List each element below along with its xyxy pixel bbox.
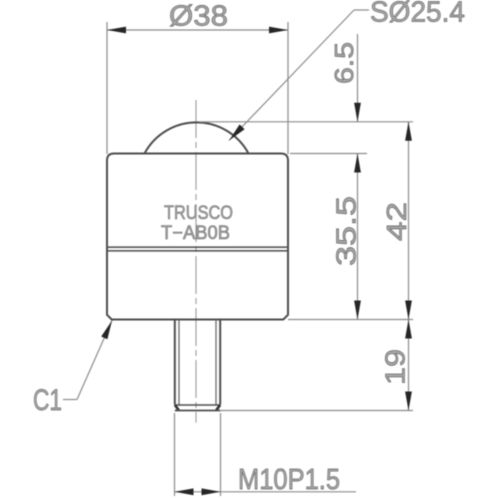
dimension M10P1.5 extension line right (220, 413, 222, 496)
leader C1 horizontal segment (63, 399, 77, 401)
extension line ball top (right) (199, 121, 413, 123)
svg-text:35.5: 35.5 (331, 196, 362, 266)
body joint line upper (107, 246, 288, 248)
body joint line lower (107, 250, 288, 252)
svg-text:M10P1.5: M10P1.5 (238, 464, 340, 496)
stud bottom chamfer right (216, 405, 220, 411)
stud chamfer start line (175, 404, 220, 406)
stud thread inner left (178, 320, 180, 406)
leader C1 diagonal (77, 321, 112, 400)
stud bottom edge (175, 410, 220, 412)
svg-text:19: 19 (380, 349, 411, 385)
dimension 35.5 arrow up (354, 154, 361, 173)
svg-text:6.5: 6.5 (329, 42, 359, 84)
svg-text:C1: C1 (33, 384, 62, 417)
leader SØ25.4 horizontal segment (354, 9, 369, 11)
dimension 35.5 line (357, 154, 359, 320)
leader C1 arrowhead (101, 321, 112, 340)
svg-text:42: 42 (381, 202, 412, 241)
leader SØ25.4 diagonal (229, 10, 354, 141)
svg-text:SØ25.4: SØ25.4 (370, 0, 465, 29)
leader SØ25.4 arrowhead (229, 124, 245, 140)
centerline (vertical axis) (195, 100, 197, 423)
body outline (cup + base cylinder) (107, 154, 288, 320)
extension line stud bottom (right) (220, 410, 413, 412)
dimension M10P1.5 extension line left (174, 413, 176, 496)
ball arc (145, 122, 249, 153)
dimension Ø38 arrow left (107, 27, 126, 34)
dimension Ø38 extension line right (287, 22, 289, 154)
dimension 35.5 arrow down (354, 301, 361, 320)
dimension 42 arrow up (405, 122, 412, 141)
stud bottom chamfer left (175, 405, 179, 411)
stud thread inner right (215, 320, 217, 406)
svg-text:TRUSCO: TRUSCO (164, 203, 233, 224)
dimension M10P1.5 arrow left (175, 488, 194, 495)
extension line body top (right) (290, 153, 367, 155)
dimension Ø38 line (107, 29, 288, 31)
svg-text:T−AB0B: T−AB0B (161, 223, 230, 244)
dimension Ø38 extension line left (106, 22, 108, 154)
svg-text:Ø38: Ø38 (169, 1, 228, 33)
dimension 42 line (408, 122, 410, 320)
stud outer right (219, 320, 221, 405)
dimension Ø38 arrow right (269, 27, 288, 34)
dimension 6.5 line (357, 34, 359, 122)
dimension M10P1.5 arrow right (202, 488, 221, 495)
stud outer left (174, 320, 176, 405)
dimension 19 arrow up (405, 320, 412, 339)
dimension 19 arrow down (405, 392, 412, 411)
dimension 42 arrow down (405, 301, 412, 320)
dimension 6.5 arrow (down, tip at ball top line) (354, 103, 361, 122)
dimension 19 line (408, 320, 410, 411)
dimension M10P1.5 line (175, 491, 357, 493)
extension line body bottom (right) (288, 319, 413, 321)
